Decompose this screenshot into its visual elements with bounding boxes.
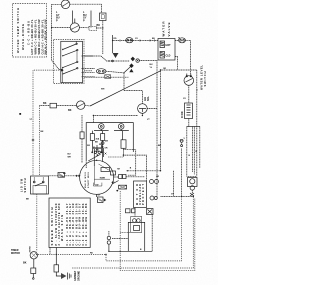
solenoid A [99,124,105,130]
wire protector bottom down [134,208,136,217]
timer inner links [63,41,77,82]
svg-text:CLD: CLD [166,55,171,58]
lead BU [72,11,74,24]
timer motor label [11,246,32,265]
svg-text:WRM W-C + RD-BU GY-VW: WRM W-C + RD-BU GY-VW [37,19,41,55]
junction arrow [61,69,64,72]
inner parts [133,219,137,223]
wire motor to protector [114,176,119,178]
timer contact 3 [62,61,78,68]
contact circle [136,59,139,62]
svg-text:WASH-RINSE: WASH-RINSE [21,24,25,50]
svg-text:WATER LEVEL: WATER LEVEL [200,65,204,90]
svg-text:30A: 30A [96,138,100,141]
wire drop to connector P1 [101,4,103,13]
speed box bottom stub [55,248,57,265]
capacitor oval [96,69,106,74]
svg-text:5M: 5M [105,141,108,143]
diamond lower [129,63,133,68]
water temp switch box [13,4,47,58]
left wire corner [38,106,40,176]
svg-text:WATER: WATER [162,21,166,37]
resistor 3 [121,140,126,149]
valve connector pair [179,38,186,43]
diagonal wire [90,71,161,106]
connector mid W1 [180,139,183,146]
blade to diamond [124,66,132,73]
wire SW3 right [85,104,90,107]
svg-text:MAIN WDG: MAIN WDG [84,172,87,188]
lead GY [90,11,92,28]
left small component [80,115,84,163]
motor area labels [68,138,162,197]
connector oval on y40 [126,38,133,43]
horizontal through cluster [161,196,194,198]
svg-text:BK: BK [43,102,47,105]
timer switch outer dashed box [54,40,85,84]
water valve label [162,21,171,37]
svg-text:WATER TEMP SWITCH: WATER TEMP SWITCH [16,8,20,53]
bottom right rect [109,215,152,252]
motor bottom components [97,194,107,202]
stub above corner [112,35,114,41]
wire C [84,76,129,78]
timer motor fuse [31,259,36,279]
svg-text:MOTOR: MOTOR [11,252,20,255]
wire from temp box to switch SW1 [52,3,61,5]
resistor 1 [90,134,94,141]
arrow triangle [113,53,119,58]
water level label [200,65,208,90]
svg-text:HOT: HOT [166,44,172,47]
inline component [58,173,65,178]
bend into junction [52,60,61,70]
svg-text:BK: BK [23,262,27,265]
solenoid B [118,124,124,130]
wire B with capacitor [84,70,93,72]
fuse bits below protector [126,209,136,213]
right column labels [184,90,199,157]
cluster right of protector [147,180,159,215]
motor circle [80,160,116,194]
timer switch inner box [61,41,83,82]
svg-text:BK: BK [26,199,30,201]
verticals from solenoid box down [86,160,102,168]
svg-text:AGI: AGI [144,97,147,101]
svg-text:WH: WH [68,156,72,158]
right cluster top [188,178,198,197]
svg-text:C-4 H + RD-WH 30-BK: C-4 H + RD-WH 30-BK [85,203,88,245]
bottom wire W1 [38,197,182,261]
svg-text:VALVE: VALVE [167,23,171,37]
ground label [74,270,81,281]
valve out wires [175,40,179,42]
right outer vertical [196,70,198,176]
timer contact 1 [62,43,77,50]
svg-text:30 RD: 30 RD [30,246,32,253]
motor entry arrowheads [76,175,81,177]
wire color labels [56,11,100,27]
timer contact 4 [62,68,78,75]
motor internal parts [93,166,95,185]
svg-text:2M: 2M [87,145,90,147]
svg-text:CABINET: CABINET [74,270,77,281]
svg-text:WASH SPIN: WASH SPIN [61,215,64,241]
wire right cluster down [72,197,193,269]
svg-text:C-C + RD-BU: C-C + RD-BU [27,21,31,45]
water level switch [184,74,194,86]
speed box bottom drop [49,248,51,255]
svg-text:CW: CW [95,184,98,186]
water valve box [158,39,175,61]
drop to y90 wire [123,73,125,91]
svg-text:WH H-C + RD-BK GY-VW: WH H-C + RD-BK GY-VW [44,19,48,55]
lid switch box [31,176,49,194]
wire W2 [120,191,195,271]
right mid vertical [160,71,162,171]
lid wire right 2 [65,175,80,177]
protector box [134,181,147,208]
wire box to clutch [93,115,138,117]
wire to fuse [39,105,50,107]
inner box [131,217,142,233]
svg-text:MAIN: MAIN [100,176,106,179]
diamond upper [131,57,135,62]
switch SW2 [70,19,79,33]
svg-text:SWITCH: SWITCH [203,71,207,86]
svg-text:30 RD: 30 RD [182,111,184,118]
wire rect down [188,119,190,127]
clutch circle [138,96,150,114]
svg-text:BK: BK [97,24,101,27]
centrifugal switch cluster [112,168,145,192]
speed switch box [49,198,90,248]
svg-text:HOT C-C + RD-BU 30-YL: HOT C-C + RD-BU 30-YL [30,19,34,54]
right pair verticals [192,127,199,175]
switch SW1 [61,0,70,9]
switch SW3 [77,101,85,109]
speed switch text [50,203,88,245]
water temp switch label [16,8,48,55]
timer motor circle [30,252,37,259]
drop to arrow [112,41,114,54]
connector pair bottom [107,231,128,251]
link cluster to right vertical [139,60,157,62]
triangle [129,69,133,73]
svg-text:7M: 7M [117,169,120,171]
wire ticks y40 [120,39,155,41]
wire to right vertical [186,40,191,73]
connector block dashed [89,26,97,30]
svg-text:SOL: SOL [148,96,150,101]
clutch wires [124,91,142,104]
console outline corner [33,70,62,176]
svg-text:WRM C-C + RD-BU 30-YL: WRM C-C + RD-BU 30-YL [34,19,38,54]
vertical from y171 [172,171,174,197]
resistor 2 [101,134,105,141]
pressure rect [185,103,193,119]
svg-text:START WDG: START WDG [87,172,90,188]
lid wire down [36,194,38,252]
junction bar [187,126,200,128]
left column marks [19,113,34,141]
wire connector to vertical [97,27,103,29]
X box [105,75,111,79]
svg-text:SWITCH: SWITCH [24,178,27,192]
start contacts above motor [88,145,106,166]
switch cluster wires [84,56,157,91]
misc tiny labels [30,38,187,255]
connector P1 [100,13,107,21]
timer side wires [82,55,94,57]
solenoid box [86,123,146,181]
bottom fuse 2 [54,265,59,272]
wire SW2 right [79,27,89,29]
lid switch label [21,178,27,192]
wire vertical left drop [52,4,71,60]
wire below P1 [102,21,104,55]
svg-text:WH: WH [101,89,105,91]
timer contact 2 [62,49,78,56]
cabinet ground [61,273,71,280]
wire motor top right [128,170,161,172]
valve coil HOT [160,41,171,48]
wire fuse to SW3 [57,105,77,107]
valve coil CLD [160,52,171,59]
svg-text:GROUND: GROUND [79,270,81,281]
n join [187,127,197,177]
motor internal text [84,172,90,188]
wire top run [70,3,102,5]
lid wire right [49,175,59,177]
wire level down [188,85,190,103]
pressure label [182,111,184,118]
wire y40 run to valve [113,40,158,42]
valve lower wire [175,57,178,71]
wire valve feed across [161,69,197,71]
svg-text:BK: BK [68,109,72,112]
fuse box [50,103,57,108]
svg-text:4M: 4M [112,181,115,184]
